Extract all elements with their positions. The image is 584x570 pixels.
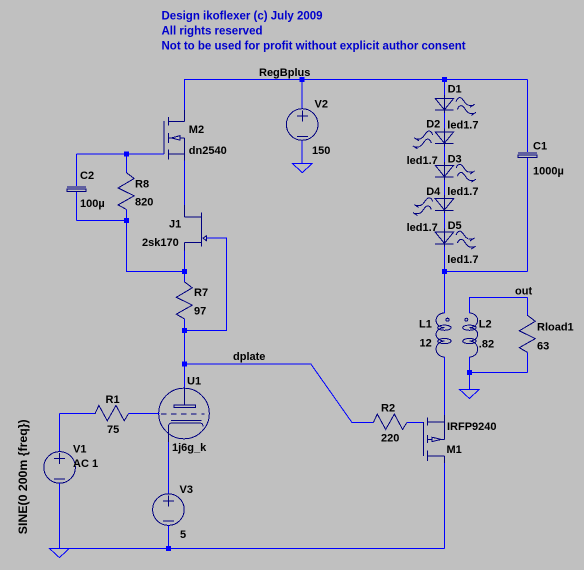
svg-text:220: 220 [381, 433, 399, 445]
wire LED bottom to right rail [444, 271, 527, 273]
svg-text:led1.7: led1.7 [447, 254, 478, 266]
svg-text:12: 12 [420, 337, 432, 349]
junction R7 bottom / gate return [182, 328, 187, 333]
junction R8 top [124, 152, 129, 157]
resistor R7 [176, 271, 192, 330]
voltage source V3 [153, 494, 185, 548]
junction L2 bottom [467, 370, 472, 375]
wire top rail RegBplus [184, 79, 528, 81]
svg-text:SINE(0 200m {freq}): SINE(0 200m {freq}) [16, 419, 30, 534]
svg-text:R2: R2 [381, 403, 395, 415]
svg-text:1000µ: 1000µ [533, 166, 564, 178]
svg-text:75: 75 [107, 424, 119, 436]
wire L1 top [443, 272, 445, 314]
svg-text:5: 5 [180, 529, 186, 541]
svg-text:100µ: 100µ [80, 198, 105, 210]
voltage source V1 [44, 414, 76, 549]
svg-text:820: 820 [135, 197, 153, 209]
svg-text:L2: L2 [479, 318, 492, 330]
svg-text:dplate: dplate [233, 351, 265, 363]
junction R8 bottom [124, 218, 129, 223]
svg-text:led1.7: led1.7 [447, 119, 478, 131]
svg-text:.82: .82 [479, 338, 494, 350]
LED D4 rays (mirrored) [413, 198, 433, 216]
svg-text:2sk170: 2sk170 [142, 237, 179, 249]
junction LED bottom / L1 [442, 269, 447, 274]
LED D2 rays (mirrored) [413, 131, 433, 149]
resistor R8 [118, 154, 134, 220]
resistor R2 [373, 414, 423, 429]
svg-text:led1.7: led1.7 [447, 186, 478, 198]
wire stub to ground [468, 372, 470, 389]
svg-text:63: 63 [537, 340, 549, 352]
svg-text:Rload1: Rload1 [537, 321, 574, 333]
resistor Rload1 [519, 297, 535, 372]
transistor M2 dn2540 [164, 80, 184, 161]
resistor R1 [60, 405, 160, 420]
LED D2 [435, 128, 453, 146]
svg-text:dn2540: dn2540 [189, 145, 227, 157]
svg-text:97: 97 [194, 306, 206, 318]
svg-text:D4: D4 [426, 186, 441, 198]
capacitor C2 [67, 154, 86, 220]
LED D1 rays [456, 98, 476, 116]
svg-text:D3: D3 [448, 153, 462, 165]
svg-text:L1: L1 [419, 318, 432, 330]
junction dplate [182, 362, 187, 367]
wire LED column [443, 80, 445, 272]
transistor J1 2sk170 [185, 205, 207, 251]
svg-text:1j6g_k: 1j6g_k [172, 442, 207, 454]
wire L2 bottom [468, 357, 470, 372]
ground below V2 [292, 163, 312, 172]
LED D1 [435, 95, 453, 113]
svg-text:V3: V3 [180, 484, 193, 496]
svg-text:C1: C1 [533, 141, 547, 153]
wire L2 top / out [469, 297, 527, 313]
svg-text:led1.7: led1.7 [407, 222, 438, 234]
svg-text:C2: C2 [80, 170, 94, 182]
svg-text:M2: M2 [189, 124, 204, 136]
wire U1 cathode to V3 [167, 442, 169, 494]
voltage source V2 [286, 80, 318, 164]
junction J1 source / R7 [182, 269, 187, 274]
svg-text:Design ikoflexer (c) July 2009: Design ikoflexer (c) July 2009 [162, 11, 323, 23]
wire J1 gate loop [185, 238, 227, 330]
svg-text:V1: V1 [73, 444, 86, 456]
LED D5 [435, 229, 453, 247]
junction bottom rail / V3 [166, 546, 171, 551]
capacitor C1 [518, 153, 537, 158]
svg-text:Not to be used for profit with: Not to be used for profit without explic… [162, 41, 466, 53]
svg-text:J1: J1 [169, 219, 181, 231]
junction top rail / LED string [442, 77, 447, 82]
svg-text:All rights reserved: All rights reserved [162, 26, 263, 38]
svg-text:IRFP9240: IRFP9240 [447, 421, 497, 433]
wire M1 source down [444, 463, 446, 548]
LED D4 [435, 195, 453, 213]
svg-text:R1: R1 [106, 394, 120, 406]
ground bottom left [49, 548, 69, 557]
inductor L2 [463, 313, 478, 357]
svg-text:M1: M1 [447, 444, 462, 456]
wire M2 gate to R8/C2 [126, 153, 164, 155]
inductor L1 [436, 313, 451, 357]
svg-text:AC 1: AC 1 [73, 458, 98, 470]
junction top rail / V2 [300, 77, 305, 82]
wire C2 top [76, 153, 126, 155]
svg-text:led1.7: led1.7 [407, 155, 438, 167]
wire C2 bottom [76, 219, 126, 221]
wire dplate run to R2 [185, 364, 374, 422]
wire L2 bottom to Rload [469, 371, 527, 373]
transistor M1 IRFP9240 [423, 415, 444, 463]
svg-text:150: 150 [312, 145, 330, 157]
wire right rail upper (to C1) [527, 80, 529, 153]
wire L1 bottom to M1 [443, 357, 445, 415]
wire R7 bottom to plate node [184, 330, 186, 364]
svg-text:R7: R7 [194, 287, 208, 299]
LED D3 [435, 162, 453, 180]
svg-text:U1: U1 [187, 376, 201, 388]
ground below L2 [459, 389, 479, 398]
LED D5 rays [456, 231, 476, 249]
svg-text:V2: V2 [315, 99, 328, 111]
wire right rail lower (from C1) [527, 158, 529, 271]
comment text header [162, 11, 466, 53]
svg-text:out: out [515, 285, 532, 297]
svg-text:R8: R8 [135, 178, 149, 190]
tube U1 1j6g_k [159, 364, 210, 442]
svg-text:D1: D1 [448, 84, 462, 96]
LED D3 rays [456, 164, 476, 182]
wire M2 source to J1 drain [184, 161, 186, 206]
wire J1 source down [184, 251, 186, 272]
svg-text:D5: D5 [448, 220, 462, 232]
wire R8 bottom to J1 source [126, 220, 184, 271]
svg-text:D2: D2 [426, 119, 440, 131]
wire bottom rail [60, 547, 445, 549]
